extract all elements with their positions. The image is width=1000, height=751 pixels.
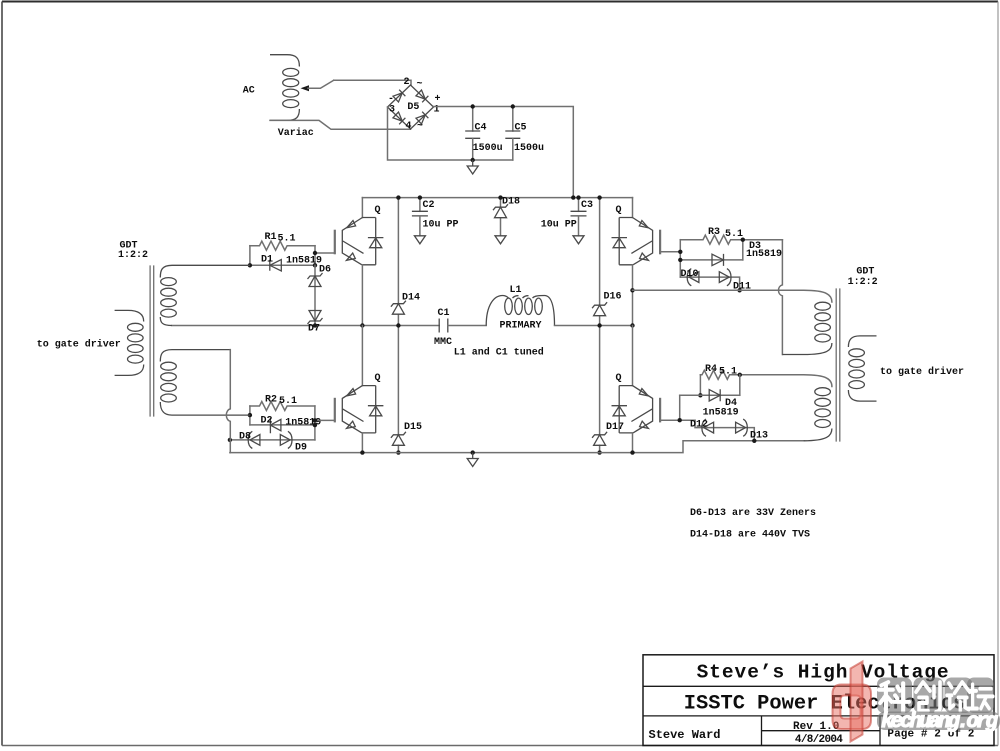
wire left leg collector top: [361, 198, 363, 218]
transformer GDT right core: [836, 289, 840, 441]
watermark gray band kechuang.org: [877, 712, 1000, 731]
junction dot D16 line mid: [597, 323, 601, 327]
svg-text:R2: R2: [265, 395, 277, 406]
junction dot bottom ground tap: [471, 450, 475, 454]
wire top DC rail: [362, 197, 632, 199]
wire R1 box left vertical: [249, 246, 251, 266]
title block row divider 1: [643, 685, 994, 687]
svg-text:Q: Q: [616, 205, 622, 216]
junction dot GDT lead to R1 box: [248, 263, 252, 267]
svg-text:D14-D18 are 440V TVS: D14-D18 are 440V TVS: [690, 530, 810, 541]
zener D13: [736, 419, 748, 436]
svg-text:D10: D10: [681, 269, 699, 280]
svg-text:D6: D6: [319, 265, 331, 276]
wire right leg emitter through mid rail: [632, 265, 634, 326]
title block rev/date divider: [762, 730, 881, 732]
svg-text:PRIMARY: PRIMARY: [500, 320, 542, 331]
TVS D15: [391, 432, 406, 446]
junction dot gate tap bottom-right: [678, 418, 682, 422]
wire emitter rail to right GDT: [633, 290, 832, 302]
watermark gray patch character 2: [914, 678, 944, 714]
svg-text:3: 3: [389, 105, 395, 116]
wire R1 box right vertical: [314, 246, 316, 266]
diode D4 1n5819: [709, 389, 720, 401]
zener D10: [687, 269, 699, 286]
junction dot D14 line top: [396, 195, 400, 199]
svg-text:C3: C3: [581, 200, 593, 211]
junction dot D2 wire right: [313, 423, 317, 427]
svg-text:5.1: 5.1: [719, 367, 737, 378]
svg-text:10u PP: 10u PP: [541, 220, 577, 231]
svg-text:D8: D8: [239, 432, 251, 443]
TVS leg D16/D17 vertical wire: [599, 198, 601, 453]
svg-text:Steve Ward: Steve Ward: [649, 728, 721, 742]
zener D8: [248, 431, 260, 448]
svg-text:C5: C5: [515, 123, 527, 134]
svg-text:to gate driver: to gate driver: [37, 339, 121, 351]
D5 diode bottom-left: [393, 112, 406, 125]
wire gate top-left: [315, 252, 335, 254]
title block column divider right: [879, 716, 881, 746]
junction dot right leg mid: [630, 323, 634, 327]
svg-text:D6-D13 are 33V Zeners: D6-D13 are 33V Zeners: [690, 508, 816, 519]
wire R4 left end vertical: [699, 375, 701, 396]
junction dot D14 line mid: [396, 323, 400, 327]
watermark logo ring: [833, 685, 872, 730]
wire D2 branch: [250, 424, 315, 426]
resistor R4 with branch wire to GDT: [700, 370, 832, 386]
watermark gray patch character 4: [967, 678, 994, 714]
wire D1 branch: [250, 264, 315, 266]
svg-text:kechuang.org: kechuang.org: [881, 711, 998, 734]
diode D3 1n5819: [712, 254, 724, 266]
svg-text:5.1: 5.1: [279, 396, 297, 407]
svg-text:Variac: Variac: [278, 127, 314, 139]
svg-text:to gate driver: to gate driver: [880, 366, 964, 378]
TVS leg D14/D15 vertical wire: [397, 198, 399, 453]
resistor R2 with branch wire: [250, 402, 315, 411]
wire zener branch D8/D9: [230, 439, 315, 441]
transistor Q bottom-right IGBT: [612, 386, 661, 433]
svg-text:1500u: 1500u: [473, 143, 503, 154]
watermark character ke: [879, 682, 909, 712]
junction dot zener branch to emitter rail: [737, 288, 741, 292]
junction dot C5 top: [511, 104, 515, 108]
junction dot D3 wire left: [678, 258, 682, 262]
svg-text:1:2:2: 1:2:2: [848, 277, 878, 288]
wire R3 box right vertical with hop: [779, 240, 783, 355]
svg-text:5.1: 5.1: [725, 229, 743, 240]
svg-text:R4: R4: [705, 364, 717, 375]
wire D4 branch: [680, 394, 740, 396]
GDT left bottom secondary winding: [160, 350, 250, 416]
zener D9: [280, 431, 292, 448]
ground under D18: [495, 236, 506, 244]
svg-text:GDT: GDT: [856, 267, 874, 278]
TVS D17: [592, 432, 607, 446]
resistor R3 with branch wire: [680, 235, 782, 244]
svg-text:R3: R3: [708, 227, 720, 238]
transistor Q bottom-left IGBT: [335, 386, 384, 433]
capacitor C1 MMC: [439, 319, 448, 333]
junction dot right leg bottom: [630, 450, 634, 454]
svg-text:D5: D5: [407, 102, 419, 113]
junction dot left leg bottom: [360, 450, 364, 454]
wire right leg emitter to bottom rail: [632, 433, 634, 453]
wire D4 box right vertical: [739, 375, 741, 396]
junction dot D15 line bottom: [396, 450, 400, 454]
ground under C3: [573, 236, 584, 244]
zener D6: [308, 273, 323, 287]
svg-text:Q: Q: [616, 373, 622, 384]
resistor R1 with branch wire: [250, 241, 315, 250]
svg-text:1n5819: 1n5819: [746, 249, 782, 260]
svg-text:Q: Q: [375, 205, 381, 216]
svg-text:4/8/2004: 4/8/2004: [795, 734, 843, 746]
junction dot GDT lead to R2 box: [248, 413, 252, 417]
junction dot ground tap: [471, 158, 475, 162]
title block column divider left: [761, 716, 763, 746]
ground under C4/C5: [467, 160, 478, 174]
svg-text:AC: AC: [243, 85, 255, 96]
junction dot C4 top: [471, 104, 475, 108]
svg-text:~: ~: [417, 121, 423, 132]
wire mid rail left of C1: [172, 325, 439, 327]
junction dot R4 leg on D4 wire: [698, 393, 702, 397]
D5 diode bottom-right: [416, 112, 429, 125]
watermark character chuang: [916, 682, 940, 712]
wire mid rail C1 to L1: [448, 325, 486, 327]
wire bridge plus pin 1 to caps and down to top rail: [434, 107, 574, 198]
svg-text:1:2:2: 1:2:2: [118, 250, 148, 261]
svg-text:Steve’s High Voltage: Steve’s High Voltage: [697, 662, 949, 684]
wire D4 box left vertical: [679, 395, 681, 420]
wire gate bottom-right: [660, 419, 695, 421]
svg-text:D12: D12: [690, 420, 708, 431]
svg-text:D13: D13: [750, 431, 768, 442]
TVS D18: [500, 198, 502, 236]
svg-text:1n5819: 1n5819: [703, 407, 739, 418]
wire bottom rail: [230, 441, 804, 453]
junction dot supply drop on top rail: [571, 195, 575, 199]
transistor Q top-right IGBT: [612, 218, 661, 265]
wire mid rail right of L1: [555, 325, 633, 327]
wire bridge minus pin 3 down and right (negative return): [388, 107, 513, 160]
svg-text:R1: R1: [265, 232, 277, 243]
GDT left top secondary winding: [160, 265, 250, 325]
junction dot C2: [418, 195, 422, 199]
watermark logo vertical stroke: [851, 662, 863, 742]
wire right leg collector top: [632, 198, 634, 218]
transformer T1 Variac coil: [270, 55, 299, 67]
ground under C2: [414, 236, 425, 244]
wire R2 box left vertical: [249, 406, 251, 425]
capacitor C3: [578, 198, 580, 212]
watermark character lun: [947, 682, 970, 711]
junction dot zener chain top: [313, 263, 317, 267]
svg-text:10u PP: 10u PP: [423, 220, 459, 231]
junction dot gate tap: [313, 251, 317, 255]
junction dot C3: [576, 195, 580, 199]
transformer GDT left core: [150, 266, 154, 416]
wire left leg collector lower: [361, 326, 363, 386]
wire gate top-right: [660, 251, 680, 253]
watermark gray patch character 1: [877, 678, 912, 714]
GDT right top secondary winding: [782, 302, 832, 354]
svg-text:D9: D9: [295, 443, 307, 454]
svg-text:~: ~: [417, 79, 423, 90]
junction dot left leg mid: [360, 323, 364, 327]
page border frame: [2, 1, 998, 3]
svg-text:4: 4: [406, 121, 412, 132]
junction dot D18: [498, 195, 502, 199]
junction dot gate tap top-right: [678, 250, 682, 254]
D5 diode top-left: [393, 90, 406, 103]
junction dot D17 line bottom: [597, 450, 601, 454]
junction dot R3 inner tap: [741, 238, 745, 242]
wire R3 box left vertical: [679, 240, 681, 277]
svg-text:D18: D18: [502, 197, 520, 208]
svg-text:1500u: 1500u: [514, 143, 544, 154]
transistor Q top-left IGBT: [335, 218, 384, 265]
svg-text:L1: L1: [510, 285, 522, 296]
svg-text:D1: D1: [261, 255, 273, 266]
variac wiper arrow: [301, 85, 310, 91]
svg-text:D16: D16: [604, 292, 622, 303]
bridge rectifier D5 diamond: [388, 85, 434, 129]
ground on bottom rail: [467, 453, 478, 467]
TVS D16: [592, 302, 607, 316]
junction dot right emitter rail tap: [630, 288, 634, 292]
svg-text:C4: C4: [475, 123, 487, 134]
svg-text:MMC: MMC: [434, 337, 452, 348]
svg-text:C1: C1: [438, 308, 450, 319]
wire zener chain D6/D7: [314, 265, 316, 325]
wire zener branch D12/D13 with jog: [695, 420, 754, 441]
wire zener branch D10/D11: [680, 277, 739, 290]
svg-text:2: 2: [404, 77, 410, 88]
watermark gray patch character 3: [945, 678, 973, 714]
GDT left primary winding: [115, 310, 144, 375]
diode D2 1n5819: [270, 418, 281, 433]
svg-text:D17: D17: [606, 422, 624, 433]
svg-text:C2: C2: [423, 200, 435, 211]
junction dot zener branch to bottom lead: [752, 439, 756, 443]
junction dot R4 inner tap: [738, 373, 742, 377]
title block row divider 2: [643, 715, 994, 717]
wire D3 branch: [680, 259, 743, 261]
zener D11: [719, 269, 731, 286]
wire wiper to bridge pin 2: [334, 80, 411, 85]
diode D1 1n5819: [270, 260, 282, 271]
junction dot zener chain bottom: [313, 323, 317, 327]
GDT right primary winding: [848, 336, 876, 401]
svg-text:5.1: 5.1: [278, 234, 296, 245]
GDT right bottom secondary winding: [804, 388, 832, 441]
junction dot D16 line top: [597, 195, 601, 199]
D5 diode top-right: [416, 90, 429, 103]
capacitor C4: [472, 107, 474, 132]
inductor L1 primary coil: [486, 296, 554, 326]
wire D3 box inner vertical: [742, 240, 744, 260]
zener D12: [702, 419, 714, 436]
svg-text:+: +: [435, 94, 441, 105]
capacitor C2: [419, 198, 421, 212]
wire variac bottom to bridge pin 4: [270, 120, 411, 129]
wire right leg collector lower: [632, 326, 634, 386]
svg-text:D14: D14: [402, 293, 420, 304]
capacitor C5: [512, 107, 514, 132]
svg-text:D15: D15: [404, 422, 422, 433]
junction dot gate tap lower: [313, 418, 317, 422]
svg-text:D2: D2: [261, 415, 273, 426]
svg-text:Q: Q: [375, 373, 381, 384]
svg-text:L1 and C1 tuned: L1 and C1 tuned: [454, 347, 544, 359]
wire gate bottom-left: [315, 419, 335, 421]
wire left leg emitter to bottom rail: [361, 433, 363, 453]
wire R2 box right vertical: [314, 406, 316, 440]
zener D7: [308, 311, 323, 325]
TVS D14: [391, 301, 406, 315]
watermark character tan: [968, 684, 993, 708]
svg-text:-: -: [388, 94, 394, 105]
wire bottom secondary top lead drop with hop: [226, 350, 230, 453]
title block outer frame: [643, 655, 994, 746]
junction dot zener branch left: [228, 438, 232, 442]
wire left leg emitter to mid rail: [361, 265, 363, 326]
